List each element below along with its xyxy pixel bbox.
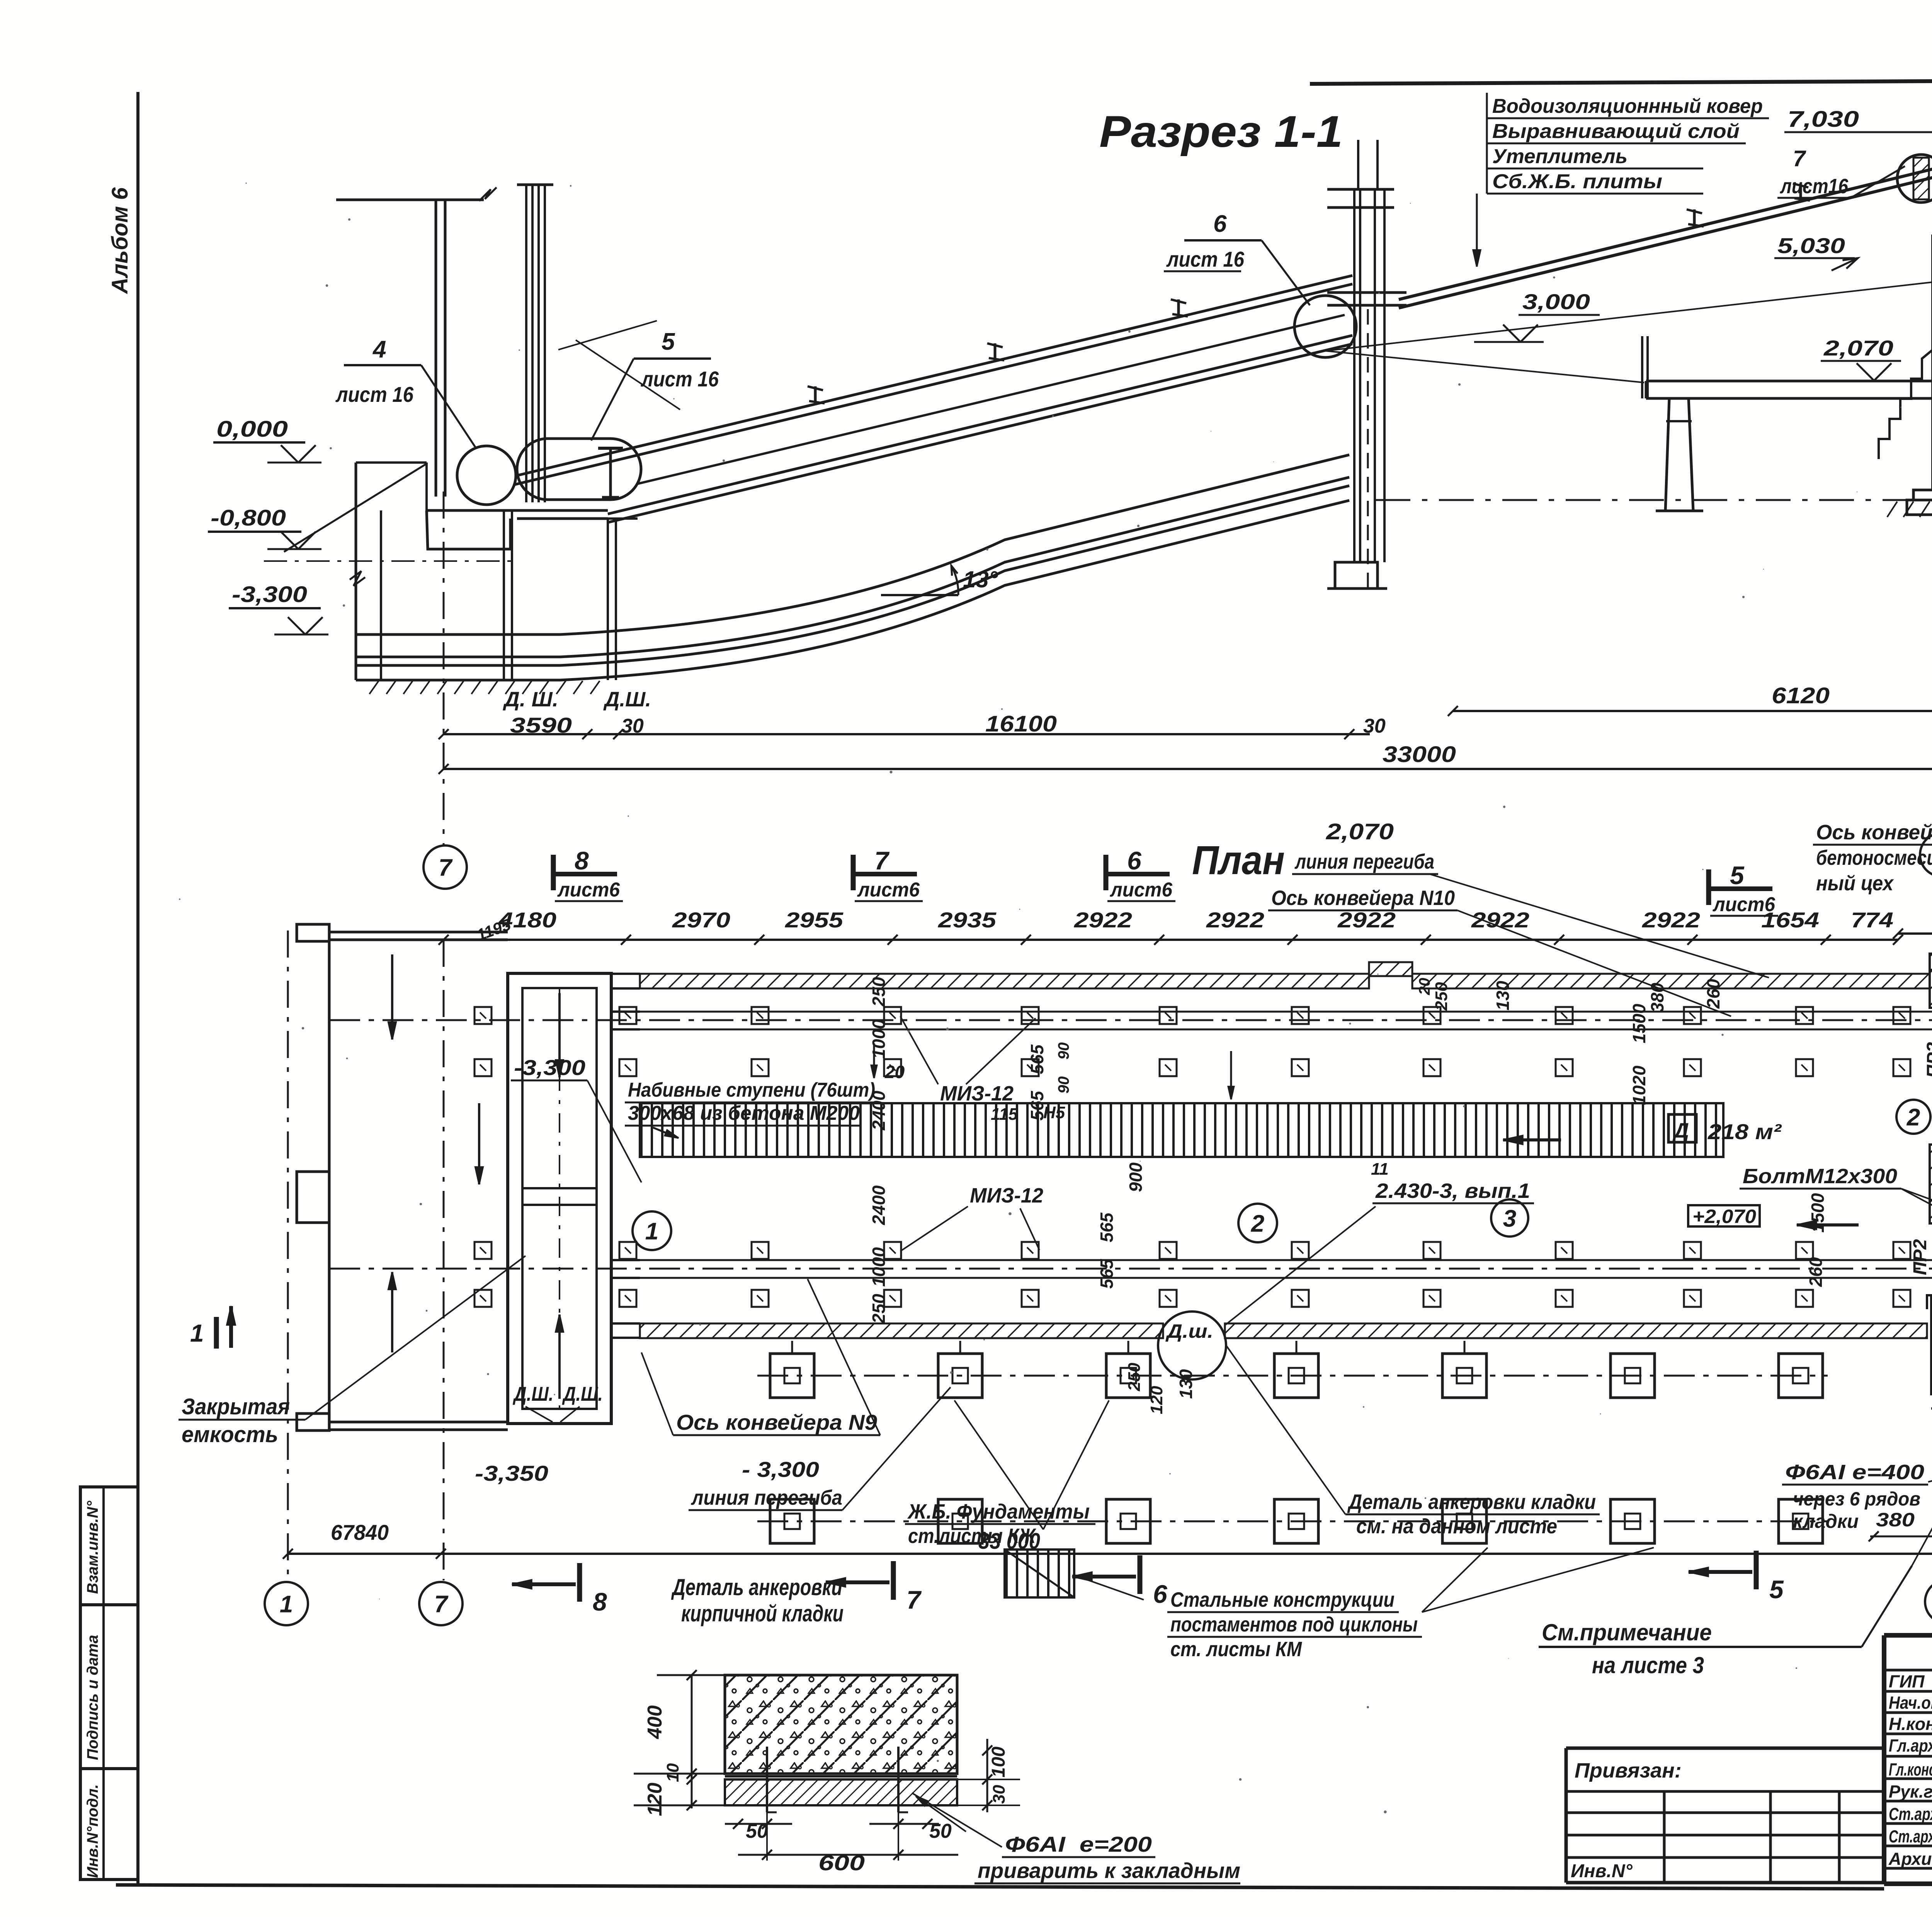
svg-text:2400: 2400 bbox=[869, 1185, 889, 1225]
svg-text:через 6 рядов: через 6 рядов bbox=[1793, 1488, 1920, 1510]
svg-text:Рук.гр.: Рук.гр. bbox=[1889, 1782, 1932, 1801]
svg-text:16100: 16100 bbox=[985, 711, 1057, 737]
svg-text:Набивные ступени (76шт): Набивные ступени (76шт) bbox=[628, 1079, 875, 1101]
svg-text:Архит.: Архит. bbox=[1888, 1849, 1932, 1869]
svg-text:Д.Ш. Д.Ш.: Д.Ш. Д.Ш. bbox=[513, 1383, 603, 1405]
svg-text:Ф6АІ е=400: Ф6АІ е=400 bbox=[1785, 1461, 1924, 1484]
svg-text:2922: 2922 bbox=[1337, 908, 1396, 932]
svg-text:2.430-3, вып.1: 2.430-3, вып.1 bbox=[1375, 1179, 1530, 1203]
svg-text:Ст.архит: Ст.архит bbox=[1889, 1804, 1932, 1824]
svg-text:7: 7 bbox=[439, 854, 453, 881]
svg-text:120: 120 bbox=[644, 1783, 666, 1816]
svg-text:Инв.N°подл.: Инв.N°подл. bbox=[84, 1784, 101, 1878]
svg-text:Ось конвейера N10: Ось конвейера N10 bbox=[1271, 886, 1455, 910]
svg-text:Деталь анкеровки: Деталь анкеровки bbox=[671, 1574, 842, 1600]
svg-text:+2,070: +2,070 bbox=[1692, 1206, 1756, 1227]
svg-text:Утеплитель: Утеплитель bbox=[1492, 145, 1628, 168]
svg-text:400: 400 bbox=[644, 1705, 666, 1739]
svg-text:100: 100 bbox=[988, 1747, 1009, 1778]
svg-text:Закрытая: Закрытая bbox=[182, 1394, 290, 1419]
svg-text:260: 260 bbox=[1703, 979, 1723, 1009]
svg-text:7,030: 7,030 bbox=[1787, 107, 1859, 132]
svg-text:380: 380 bbox=[1876, 1509, 1915, 1531]
svg-text:ный цех: ный цех bbox=[1816, 872, 1894, 895]
svg-text:2922: 2922 bbox=[1642, 908, 1700, 932]
svg-text:лист 16: лист 16 bbox=[335, 382, 413, 407]
svg-text:МИЗ-12: МИЗ-12 bbox=[970, 1184, 1043, 1207]
svg-text:ПР2: ПР2 bbox=[1923, 1042, 1932, 1078]
svg-text:План: План bbox=[1192, 838, 1285, 883]
svg-text:300х68 из бетона М200: 300х68 из бетона М200 bbox=[628, 1102, 860, 1124]
svg-text:Инв.N°: Инв.N° bbox=[1571, 1861, 1633, 1881]
svg-text:30: 30 bbox=[1363, 715, 1386, 737]
svg-text:565: 565 bbox=[1097, 1212, 1117, 1242]
svg-text:7: 7 bbox=[434, 1591, 449, 1618]
svg-text:Сб.Ж.Б. плиты: Сб.Ж.Б. плиты bbox=[1492, 170, 1662, 193]
svg-text:7: 7 bbox=[874, 846, 890, 875]
svg-text:емкость: емкость bbox=[182, 1422, 278, 1447]
svg-text:115: 115 bbox=[991, 1105, 1018, 1124]
svg-text:См.примечание: См.примечание bbox=[1542, 1619, 1712, 1645]
svg-text:20: 20 bbox=[884, 1062, 905, 1082]
svg-text:лист6: лист6 bbox=[1109, 879, 1173, 901]
svg-text:90: 90 bbox=[1055, 1077, 1072, 1094]
svg-text:2922: 2922 bbox=[1206, 908, 1264, 932]
svg-text:250: 250 bbox=[1125, 1362, 1144, 1391]
svg-text:130: 130 bbox=[1493, 981, 1513, 1010]
svg-text:БолтМ12х300: БолтМ12х300 bbox=[1743, 1165, 1897, 1188]
svg-text:565: 565 bbox=[1097, 1259, 1117, 1289]
svg-text:600: 600 bbox=[818, 1851, 865, 1875]
svg-text:Гл.констр.: Гл.констр. bbox=[1889, 1760, 1932, 1779]
svg-text:Гл.архит: Гл.архит bbox=[1889, 1736, 1932, 1755]
svg-text:30: 30 bbox=[990, 1785, 1009, 1804]
svg-text:2922: 2922 bbox=[1074, 908, 1132, 932]
svg-text:на листе 3: на листе 3 bbox=[1592, 1652, 1704, 1678]
svg-text:20: 20 bbox=[1416, 978, 1433, 996]
svg-text:1654: 1654 bbox=[1761, 908, 1819, 932]
svg-text:1500: 1500 bbox=[1629, 1004, 1649, 1043]
svg-text:-3,300: -3,300 bbox=[514, 1055, 585, 1080]
svg-text:ст. листы КМ: ст. листы КМ bbox=[1170, 1638, 1302, 1661]
svg-text:130: 130 bbox=[1176, 1369, 1196, 1399]
svg-text:Водоизоляционнный ковер: Водоизоляционнный ковер bbox=[1492, 95, 1763, 117]
svg-text:2922: 2922 bbox=[1471, 908, 1529, 932]
svg-text:2955: 2955 bbox=[785, 908, 844, 932]
svg-text:33000: 33000 bbox=[1383, 742, 1456, 767]
svg-text:8: 8 bbox=[575, 846, 589, 875]
svg-text:МИЗ-12: МИЗ-12 bbox=[940, 1082, 1014, 1105]
svg-text:лист6: лист6 bbox=[557, 879, 620, 901]
svg-text:5: 5 bbox=[662, 328, 675, 355]
svg-text:2,070: 2,070 bbox=[1823, 336, 1893, 360]
svg-text:Д.ш.: Д.ш. bbox=[1165, 1320, 1213, 1342]
svg-text:250: 250 bbox=[869, 977, 889, 1007]
svg-text:кирпичной кладки: кирпичной кладки bbox=[681, 1601, 844, 1626]
svg-text:Привязан:: Привязан: bbox=[1575, 1759, 1682, 1782]
svg-text:Ф6АІ е=200: Ф6АІ е=200 bbox=[1005, 1832, 1152, 1856]
svg-text:2: 2 bbox=[1251, 1210, 1264, 1237]
svg-text:лист16: лист16 bbox=[1779, 175, 1848, 198]
svg-text:6: 6 bbox=[1153, 1580, 1168, 1608]
svg-text:Ось конвейера в: Ось конвейера в bbox=[1816, 821, 1932, 844]
svg-text:50: 50 bbox=[746, 1820, 768, 1842]
svg-text:2,070: 2,070 bbox=[1326, 819, 1394, 844]
svg-text:4: 4 bbox=[372, 336, 386, 363]
svg-text:Д.Ш.: Д.Ш. bbox=[603, 688, 651, 711]
svg-text:Д. Ш.: Д. Ш. bbox=[503, 688, 558, 711]
svg-text:8: 8 bbox=[593, 1587, 607, 1616]
svg-text:Н5: Н5 bbox=[1043, 1103, 1065, 1122]
svg-text:Н.контр: Н.контр bbox=[1889, 1714, 1932, 1734]
svg-text:5: 5 bbox=[1730, 861, 1745, 890]
svg-text:6: 6 bbox=[1213, 211, 1227, 237]
svg-text:-0,800: -0,800 bbox=[211, 505, 286, 531]
svg-text:Д: Д bbox=[1672, 1119, 1689, 1142]
svg-text:Нач.отд.: Нач.отд. bbox=[1889, 1693, 1932, 1713]
svg-text:67840: 67840 bbox=[331, 1520, 389, 1544]
svg-text:260: 260 bbox=[1806, 1257, 1826, 1287]
svg-text:кладки: кладки bbox=[1793, 1510, 1859, 1532]
svg-text:Деталь анкеровки кладки: Деталь анкеровки кладки bbox=[1347, 1490, 1596, 1514]
svg-text:1020: 1020 bbox=[1629, 1065, 1649, 1105]
svg-text:см. на данном листе: см. на данном листе bbox=[1356, 1515, 1557, 1538]
svg-text:3590: 3590 bbox=[510, 713, 572, 737]
svg-text:380: 380 bbox=[1647, 983, 1667, 1012]
svg-text:90: 90 bbox=[1055, 1043, 1072, 1060]
svg-text:2: 2 bbox=[1906, 1104, 1920, 1131]
svg-text:Ж.Б. Фундаменты: Ж.Б. Фундаменты bbox=[907, 1500, 1090, 1523]
svg-text:30: 30 bbox=[621, 715, 644, 737]
svg-text:Альбом 6: Альбом 6 bbox=[107, 187, 133, 294]
svg-text:1000: 1000 bbox=[869, 1247, 889, 1287]
svg-text:1: 1 bbox=[190, 1319, 204, 1347]
svg-text:Ст.архит.: Ст.архит. bbox=[1889, 1827, 1932, 1846]
svg-text:лист 16: лист 16 bbox=[640, 367, 719, 391]
svg-text:Подпись и дата: Подпись и дата bbox=[84, 1635, 101, 1760]
svg-text:6120: 6120 bbox=[1772, 683, 1830, 708]
svg-text:Ось конвейера N9: Ось конвейера N9 bbox=[676, 1410, 877, 1434]
svg-text:3,000: 3,000 bbox=[1522, 289, 1590, 314]
svg-text:250: 250 bbox=[1432, 982, 1451, 1011]
svg-text:7: 7 bbox=[906, 1585, 922, 1614]
svg-text:- 3,300: - 3,300 bbox=[742, 1457, 819, 1482]
svg-text:1: 1 bbox=[280, 1591, 293, 1618]
svg-text:11: 11 bbox=[1371, 1160, 1389, 1179]
svg-text:218 м²: 218 м² bbox=[1708, 1119, 1782, 1144]
svg-text:лист 16: лист 16 bbox=[1166, 247, 1244, 271]
svg-text:5,030: 5,030 bbox=[1777, 233, 1845, 258]
svg-text:линия перегиба: линия перегиба bbox=[1294, 850, 1434, 873]
svg-text:774: 774 bbox=[1851, 908, 1893, 932]
svg-text:1: 1 bbox=[645, 1218, 658, 1245]
svg-text:7: 7 bbox=[1793, 146, 1806, 171]
svg-text:10: 10 bbox=[663, 1763, 682, 1782]
svg-text:50: 50 bbox=[929, 1820, 952, 1842]
svg-text:линия перегиба: линия перегиба bbox=[690, 1486, 842, 1509]
svg-text:бетоносмеситель-: бетоносмеситель- bbox=[1816, 846, 1932, 869]
svg-text:Разрез 1-1: Разрез 1-1 bbox=[1099, 107, 1343, 156]
svg-text:Взам.инв.N°: Взам.инв.N° bbox=[84, 1500, 101, 1594]
svg-text:приварить к закладным: приварить к закладным bbox=[978, 1858, 1240, 1883]
svg-text:250: 250 bbox=[869, 1294, 889, 1324]
svg-text:565: 565 bbox=[1027, 1044, 1047, 1074]
svg-text:-3,300: -3,300 bbox=[232, 582, 307, 607]
svg-text:13°: 13° bbox=[963, 566, 998, 592]
svg-text:постаментов под циклоны: постаментов под циклоны bbox=[1170, 1613, 1418, 1636]
svg-text:2970: 2970 bbox=[672, 908, 730, 932]
svg-text:6: 6 bbox=[1127, 846, 1142, 875]
svg-text:3: 3 bbox=[1503, 1205, 1516, 1232]
svg-text:ГИП: ГИП bbox=[1889, 1672, 1925, 1691]
svg-text:Стальные конструкции: Стальные конструкции bbox=[1170, 1588, 1395, 1611]
svg-text:5: 5 bbox=[1769, 1575, 1784, 1604]
svg-text:2935: 2935 bbox=[938, 908, 997, 932]
svg-text:0,000: 0,000 bbox=[216, 417, 288, 442]
svg-text:Выравнивающий слой: Выравнивающий слой bbox=[1492, 120, 1740, 143]
svg-text:лист6: лист6 bbox=[857, 879, 920, 901]
svg-text:ст.листы КЖ: ст.листы КЖ bbox=[908, 1524, 1037, 1548]
svg-text:900: 900 bbox=[1126, 1162, 1146, 1192]
svg-text:1000: 1000 bbox=[869, 1019, 889, 1059]
svg-text:-3,350: -3,350 bbox=[475, 1461, 548, 1485]
svg-text:ПР2: ПР2 bbox=[1910, 1239, 1930, 1275]
